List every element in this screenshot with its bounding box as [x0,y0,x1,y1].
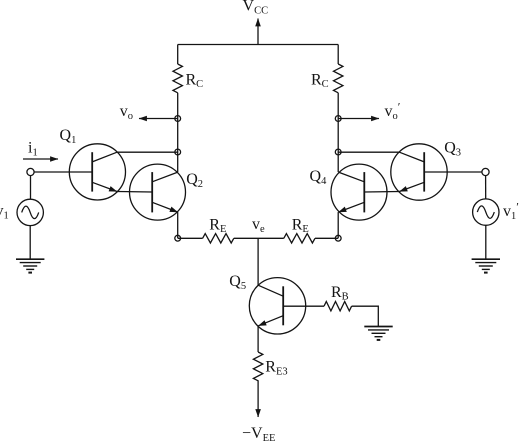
input terminal (left) [27,168,34,175]
svg-text:Q4: Q4 [310,168,328,187]
resistor RC (right) [334,64,343,93]
svg-text:Q1: Q1 [60,127,77,146]
resistor RE3 [253,352,262,381]
svg-text:RC: RC [311,72,329,91]
wire right rail bottom [337,212,339,238]
wire left rail bottom [177,212,179,238]
input terminal (right) [482,168,489,175]
output vo arrow [139,118,178,120]
transistor Q3 [391,144,447,200]
wire base Q1 [34,171,92,173]
wire right rail middle [337,93,339,172]
svg-text:−VEE: −VEE [242,425,275,444]
wire RB to ground [352,306,379,326]
wire RE to right node [315,237,338,239]
node vo' (right) [335,116,341,122]
wire node to RE (left) [178,237,203,239]
resistor RE (left) [203,234,234,243]
svg-text:Q3: Q3 [444,140,461,159]
wire Q1 emitter to Q2 base [117,191,152,194]
node vo (left) [175,116,181,122]
wire left rail middle [177,93,179,172]
svg-text:RE: RE [292,216,309,235]
node right emitter [335,235,341,241]
svg-text:RE: RE [209,216,226,235]
svg-text:RC: RC [186,72,204,91]
svg-text:vo: vo [120,103,133,122]
supply -VEE arrow [257,380,259,417]
wire top rail [178,44,339,46]
wire base Q5 to RB [283,305,324,307]
ground (v1) [16,259,44,272]
transistor Q4 [331,164,387,220]
wire Q1 collector to node [117,151,178,153]
source v1' [485,176,487,199]
wire left rail top [177,45,179,65]
svg-text:v1′: v1′ [503,200,519,223]
svg-text:ve: ve [252,216,265,235]
svg-text:i1: i1 [28,140,38,159]
svg-text:v1: v1 [0,203,9,222]
wire Q3 collector to node [338,151,399,153]
wire Q5 emitter to RE3 [257,326,259,352]
output vo' arrow [338,118,379,120]
VCC supply arrow [257,19,259,45]
resistor RB [324,302,352,311]
svg-text:vo′: vo′ [385,99,401,122]
svg-text:Q5: Q5 [229,273,246,292]
ground (v1') [472,259,500,272]
resistor RE (right) [284,234,315,243]
node left collector [175,149,181,155]
node left emitter [175,235,181,241]
svg-text:RE3: RE3 [265,359,287,378]
resistor RC (left) [173,64,182,93]
transistor Q2 [130,164,186,220]
transistor Q5 [249,278,305,334]
svg-text:VCC: VCC [243,0,269,17]
wire base Q3 to terminal [424,171,482,173]
input i1 arrow [23,158,58,160]
svg-text:Q2: Q2 [186,171,203,190]
node right collector [335,149,341,155]
wire v1 to ground [29,226,31,259]
ground (RB) [364,327,392,340]
source v1 [30,176,32,200]
wire Q3 emitter to Q4 base [364,191,399,194]
wire ve to Q5 collector [257,238,259,285]
wire RE to ve junction to RE [234,237,284,239]
wire right rail top [337,45,339,65]
wire v1' to ground [485,225,487,258]
svg-text:RB: RB [331,284,349,303]
transistor Q1 [69,144,125,200]
